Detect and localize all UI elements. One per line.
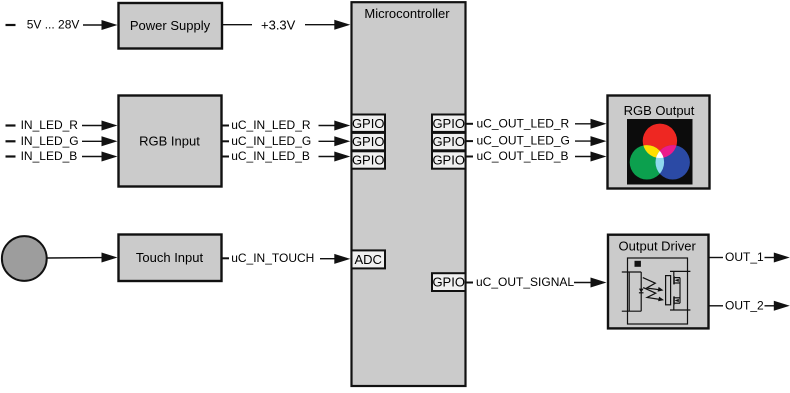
arrowhead uC_IN_LED_G into gpio xyxy=(334,136,350,146)
light arrow 2 xyxy=(643,288,660,300)
wire uC_IN_TOUCH stub xyxy=(222,257,230,259)
wire uC_OUT_LED_R stub xyxy=(466,123,474,125)
wire IN_LED_B stub xyxy=(6,155,16,157)
arrowhead into adc xyxy=(334,254,350,264)
wire uC_OUT_SIGNAL stub xyxy=(466,282,474,284)
arrowhead +3.3V into microcontroller xyxy=(334,20,350,30)
wire uC_IN_LED_B stub xyxy=(222,156,230,158)
mosfet bottom drain stub xyxy=(674,302,680,304)
svg-text:GPIO: GPIO xyxy=(352,153,385,168)
arrowhead IN_LED_R xyxy=(102,121,118,131)
rgb input box xyxy=(119,96,222,187)
output lead top xyxy=(670,270,690,272)
arrowhead uC_OUT_LED_B into rgb output xyxy=(591,152,607,162)
arrowhead uC_OUT_LED_G into rgb output xyxy=(591,136,607,146)
pin1 marker xyxy=(635,261,641,267)
svg-text:uC_OUT_LED_B: uC_OUT_LED_B xyxy=(477,149,569,163)
touch ball xyxy=(2,236,47,281)
wire 5V to power supply xyxy=(83,24,104,26)
wire uC_IN_LED_B to gpio xyxy=(319,156,337,158)
wire uC_OUT_LED_B to rgb output xyxy=(575,156,592,158)
wire IN_LED_G to rgb input xyxy=(82,140,103,142)
gpio pin box left 2 xyxy=(352,133,386,150)
light arrow 1 xyxy=(643,278,660,290)
svg-text:OUT_1: OUT_1 xyxy=(725,250,764,264)
gpio pin box right 2 xyxy=(432,133,466,150)
svg-text:GPIO: GPIO xyxy=(432,275,465,290)
rgb mixing image xyxy=(627,119,693,185)
wire +3.3V to microcontroller xyxy=(305,24,336,26)
gpio pin box right 1 xyxy=(432,115,466,132)
svg-text:GPIO: GPIO xyxy=(352,116,385,131)
wire uC_IN_TOUCH to adc xyxy=(320,258,336,260)
wire uC_OUT_LED_G to rgb output xyxy=(575,140,592,142)
svg-text:GPIO: GPIO xyxy=(432,153,465,168)
green circle xyxy=(630,145,664,179)
black backdrop xyxy=(627,119,693,185)
gpio pin box left 1 xyxy=(352,115,386,132)
svg-text:GPIO: GPIO xyxy=(432,116,465,131)
gpio pin box right bottom xyxy=(432,273,466,291)
output driver box xyxy=(608,235,709,329)
wire IN_LED_B to rgb input xyxy=(82,156,103,158)
icon outline xyxy=(628,258,688,324)
yellow overlap red green xyxy=(630,145,664,179)
wire OUT_2 arrow line xyxy=(765,305,777,307)
svg-text:uC_OUT_LED_G: uC_OUT_LED_G xyxy=(477,134,570,148)
arrowhead into power supply xyxy=(102,20,118,30)
wire uC_OUT_LED_G stub xyxy=(466,140,474,142)
output driver relay icon xyxy=(622,258,691,324)
blue circle xyxy=(656,145,690,179)
svg-text:RGB Input: RGB Input xyxy=(139,133,200,148)
arrowhead uC_OUT_LED_R into rgb output xyxy=(591,119,607,129)
white center overlap xyxy=(656,145,690,179)
arrowhead into output driver xyxy=(591,278,607,288)
wire uC_IN_LED_G stub xyxy=(222,140,230,142)
svg-text:5V ... 28V: 5V ... 28V xyxy=(27,18,80,32)
source common rail xyxy=(679,278,681,304)
mosfet top drain stub xyxy=(674,277,680,279)
wire OUT_2 from output driver xyxy=(709,305,724,307)
wire OUT_1 from output driver xyxy=(709,257,724,259)
svg-text:uC_IN_LED_R: uC_IN_LED_R xyxy=(231,118,311,132)
svg-text:+3.3V: +3.3V xyxy=(261,17,296,32)
svg-text:IN_LED_G: IN_LED_G xyxy=(21,134,79,148)
cyan overlap green blue xyxy=(656,145,690,179)
led loop left xyxy=(628,272,630,311)
svg-text:RGB Output: RGB Output xyxy=(624,103,695,118)
svg-text:GPIO: GPIO xyxy=(352,134,385,149)
wire IN_LED_R stub xyxy=(6,124,16,126)
led loop right xyxy=(640,272,642,311)
red circle xyxy=(643,124,677,158)
led input lead top xyxy=(622,271,641,273)
wire 5V input stub xyxy=(6,24,16,26)
mosfet bottom body arrow xyxy=(675,299,679,302)
rgb output box xyxy=(608,96,710,189)
led symbol xyxy=(639,289,644,293)
arrowhead IN_LED_G xyxy=(102,136,118,146)
arrowhead uC_IN_LED_B into gpio xyxy=(334,152,350,162)
mosfet gate plate xyxy=(666,276,671,305)
wire uC_IN_LED_G to gpio xyxy=(319,140,337,142)
svg-text:GPIO: GPIO xyxy=(432,134,465,149)
wire uC_OUT_LED_B stub xyxy=(466,156,474,158)
mosfet bottom channel xyxy=(673,296,675,304)
mosfet top channel xyxy=(673,276,675,284)
led input lead bottom xyxy=(622,310,641,312)
wire uC_IN_LED_R to gpio xyxy=(319,125,337,127)
svg-text:OUT_2: OUT_2 xyxy=(725,298,764,312)
svg-text:ADC: ADC xyxy=(354,252,381,267)
gpio pin box left 3 xyxy=(352,151,386,168)
mosfet bottom source stub xyxy=(674,297,680,299)
wire IN_LED_G stub xyxy=(6,140,16,142)
svg-text:Microcontroller: Microcontroller xyxy=(364,6,450,21)
arrowhead uC_IN_LED_R into gpio xyxy=(334,121,350,131)
svg-text:uC_IN_TOUCH: uC_IN_TOUCH xyxy=(231,251,314,265)
magenta overlap red blue xyxy=(656,145,690,179)
touch input box xyxy=(119,235,222,282)
mosfet top source stub xyxy=(674,282,680,284)
wire uC_OUT_SIGNAL to output driver xyxy=(574,282,592,284)
mosfet top body arrow xyxy=(675,279,679,282)
svg-text:uC_IN_LED_B: uC_IN_LED_B xyxy=(231,149,310,163)
output lead bottom xyxy=(670,309,690,311)
wire uC_OUT_LED_R to rgb output xyxy=(575,123,592,125)
wire IN_LED_R to rgb input xyxy=(82,125,103,127)
microcontroller box xyxy=(352,2,466,386)
svg-text:IN_LED_B: IN_LED_B xyxy=(21,149,78,163)
arrowhead into touch input xyxy=(102,253,118,263)
svg-text:uC_OUT_SIGNAL: uC_OUT_SIGNAL xyxy=(476,275,574,289)
adc pin box xyxy=(352,250,386,268)
wire +3.3V from power supply xyxy=(222,24,252,26)
gpio pin box right 3 xyxy=(432,151,466,168)
svg-text:Power Supply: Power Supply xyxy=(130,18,211,33)
arrowhead IN_LED_B xyxy=(102,152,118,162)
arrowhead OUT_2 xyxy=(774,301,790,311)
svg-text:Output Driver: Output Driver xyxy=(619,239,697,254)
svg-text:uC_OUT_LED_R: uC_OUT_LED_R xyxy=(477,116,570,130)
svg-text:IN_LED_R: IN_LED_R xyxy=(21,118,79,132)
power supply box xyxy=(119,3,223,49)
svg-text:Touch Input: Touch Input xyxy=(136,250,204,265)
wire OUT_1 arrow line xyxy=(765,257,777,259)
svg-text:uC_IN_LED_G: uC_IN_LED_G xyxy=(231,134,311,148)
wire uC_IN_LED_R stub xyxy=(222,125,230,127)
arrowhead OUT_1 xyxy=(774,253,790,263)
drain bottom riser xyxy=(673,305,675,310)
wire touch ball to touch input xyxy=(47,257,104,259)
drain top riser xyxy=(673,271,675,276)
